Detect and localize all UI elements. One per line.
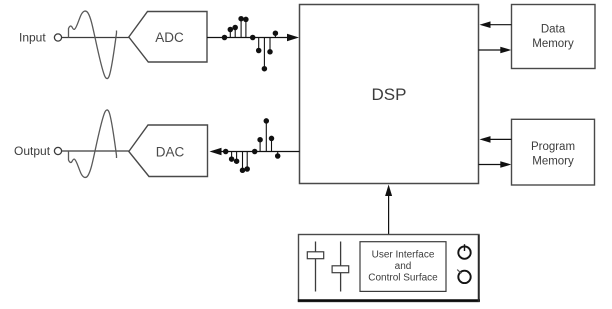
svg-text:DSP: DSP: [372, 85, 407, 104]
slider 2 handle: [332, 266, 349, 273]
svg-text:and: and: [395, 261, 412, 272]
control surface right shadow edge: [478, 235, 480, 302]
arrowhead into DSP (instruction fetch): [480, 136, 491, 143]
input terminal: [54, 34, 61, 41]
wire output line: [62, 150, 129, 152]
arrowhead into DSP (input): [287, 34, 299, 41]
DSP block: [300, 5, 479, 184]
arrowhead into DSP (data read): [480, 21, 491, 28]
output terminal: [54, 147, 61, 154]
slider 1 track: [315, 242, 317, 292]
svg-text:Output: Output: [14, 144, 51, 158]
svg-text:Memory: Memory: [532, 38, 574, 50]
wire DSP to Program Memory: [479, 164, 503, 166]
wire DSP to DAC: [218, 151, 300, 153]
arrowhead into Program Memory: [500, 161, 511, 168]
wire ADC to DSP: [207, 37, 290, 39]
knob 1: [458, 246, 470, 258]
svg-text:Program: Program: [531, 141, 575, 153]
user interface inner panel: [360, 242, 446, 292]
analog input waveform: [69, 11, 117, 79]
Program Memory block: [512, 119, 595, 185]
svg-text:Control Surface: Control Surface: [368, 273, 438, 284]
arrowhead into Data Memory (data write): [500, 47, 511, 54]
wire input line: [62, 37, 129, 39]
ADC block: [129, 12, 207, 63]
slider 2 track: [340, 242, 342, 292]
svg-text:Input: Input: [19, 31, 46, 45]
control surface box: [299, 235, 480, 302]
analog output waveform: [69, 110, 117, 178]
wire control surface to DSP: [388, 193, 390, 235]
knob 1 pointer: [464, 244, 466, 251]
control surface bottom shadow edge: [298, 299, 480, 302]
svg-text:DAC: DAC: [156, 144, 185, 159]
wire DSP to Data Memory: [479, 49, 503, 51]
svg-text:ADC: ADC: [155, 30, 184, 45]
wire Program Memory to DSP: [488, 138, 512, 140]
svg-text:Data: Data: [541, 23, 566, 35]
arrowhead into DSP (control): [385, 185, 392, 197]
DAC block: [129, 125, 208, 177]
sampled input stems: [222, 17, 277, 71]
slider 1 handle: [307, 252, 323, 259]
arrowhead into DAC: [210, 148, 222, 155]
knob 2 pointer: [457, 270, 461, 274]
sampled output stems: [224, 119, 280, 173]
knob 2: [458, 271, 470, 283]
svg-text:User Interface: User Interface: [372, 249, 435, 260]
wire Data Memory to DSP: [488, 24, 512, 26]
Data Memory block: [512, 5, 596, 69]
svg-text:Memory: Memory: [532, 156, 574, 168]
